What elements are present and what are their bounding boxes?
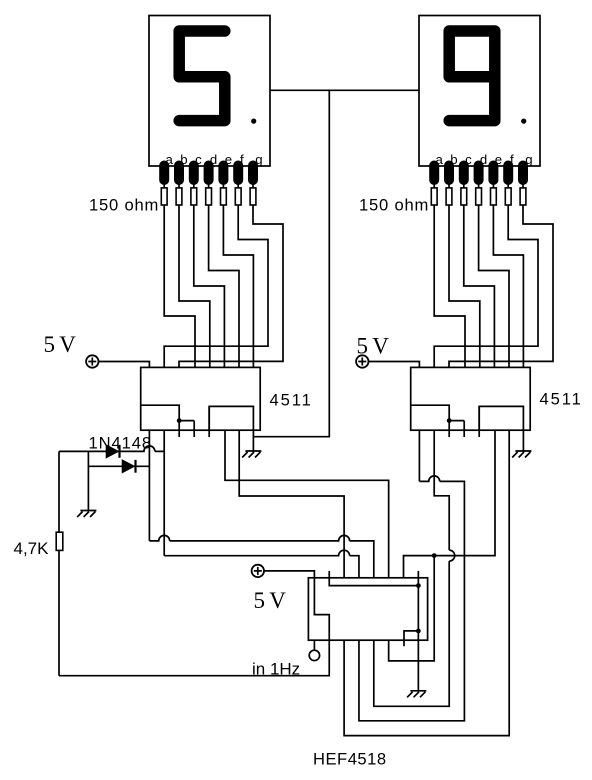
decimal point DS2 <box>521 119 526 124</box>
wire segment g DS2 to U2 <box>449 183 553 367</box>
wire U2 pinA outer loop <box>344 430 509 735</box>
svg-text:5V: 5V <box>357 334 394 359</box>
wire U1 pinA to U3 <box>239 430 344 578</box>
U3 inner divider <box>314 578 329 640</box>
U1 inner input box <box>209 406 253 430</box>
svg-text:4,7K: 4,7K <box>14 539 50 558</box>
ground U1 <box>242 451 261 458</box>
digit 5 on DS1 <box>179 31 225 121</box>
U2 inner input box <box>479 406 523 430</box>
U1 pin stub LT <box>178 421 180 437</box>
wire segment g DS1 to U1 <box>179 183 283 367</box>
diode D2 wire <box>88 465 149 467</box>
wire segment b DS1 to U1 <box>179 183 210 367</box>
junction dot U1 <box>177 418 182 423</box>
U2 pin stub LT <box>448 421 450 437</box>
U2 ground pin <box>522 430 524 451</box>
wire 5V to U2 <box>369 362 420 368</box>
junction dot right bus <box>432 553 437 558</box>
display DS2 <box>419 16 540 167</box>
segment labels a-g DS1 <box>166 152 263 167</box>
wire in 1Hz input <box>59 640 329 676</box>
junction dot U3 bottom <box>416 629 421 634</box>
U1 pin stub LE <box>208 406 210 437</box>
wire segment e DS2 to U2 <box>493 183 523 367</box>
wire U2 pin1 down-right (to U3 via right loop) <box>359 430 464 721</box>
wire U1 pin2 to U3 (reset row 2) <box>164 430 359 578</box>
svg-text:in 1Hz: in 1Hz <box>252 659 300 678</box>
wire segment d DS2 to U2 <box>479 183 509 367</box>
wire segment a DS2 to U2 <box>434 183 465 367</box>
pins DS1 <box>159 161 258 186</box>
svg-text:5V: 5V <box>254 588 291 613</box>
wire node branch to U3 lower <box>389 556 435 661</box>
diode D1 1N4148 <box>106 445 119 458</box>
diode D1 wire <box>59 446 164 451</box>
wire 5V to U3 <box>264 571 314 578</box>
wire segment d DS1 to U1 <box>209 183 239 367</box>
segment labels a-g DS2 <box>436 152 533 167</box>
wire 5V to U1 <box>99 362 150 368</box>
power 5V left circle-plus <box>86 355 98 367</box>
svg-text:1N4148: 1N4148 <box>89 433 153 452</box>
wire display common drop to ground node <box>253 90 329 436</box>
svg-text:150 ohm: 150 ohm <box>359 196 429 215</box>
wire segment a DS1 to U1 <box>164 183 195 367</box>
wire segment b DS2 to U2 <box>449 183 480 367</box>
wire diode ground rail <box>87 451 89 510</box>
U2 pin stub LE <box>478 406 480 437</box>
wire segment e DS1 to U1 <box>223 183 253 367</box>
svg-text:5V: 5V <box>44 332 81 357</box>
svg-text:150 ohm: 150 ohm <box>89 196 159 215</box>
wire rail 4K7 left <box>58 451 60 675</box>
decimal point DS1 <box>251 119 256 124</box>
U3 spine to ground <box>417 571 419 691</box>
ground U3 <box>407 691 426 698</box>
U1 ground pin <box>252 430 254 451</box>
power 5V right circle-plus <box>356 355 368 367</box>
diode D2 1N4148 <box>122 460 135 473</box>
U2 inner LT latch line <box>411 405 465 420</box>
wire display common link <box>270 89 419 91</box>
U1 pin stub BI <box>193 421 195 437</box>
U2 pin stub BI <box>463 421 465 437</box>
resistor R1 4,7K <box>56 532 63 550</box>
U1 inner LT latch line <box>141 405 195 420</box>
display DS1 <box>149 16 270 167</box>
U3 inner bottom stub <box>404 631 418 646</box>
wire U1 pinB to U3 <box>225 430 389 578</box>
U3 pin stub enable top <box>329 571 418 586</box>
resistor network 150 ohm DS1 <box>161 188 167 205</box>
junction dot U3 top <box>416 583 421 588</box>
ground U2 <box>512 451 531 458</box>
op chip U1 4511 left <box>141 367 261 430</box>
wire segment c DS2 to U2 <box>464 183 495 367</box>
pins DS2 <box>429 161 528 186</box>
counter chip U3 HEF4518 <box>308 578 427 640</box>
svg-text:4511: 4511 <box>270 391 313 410</box>
junction dot U2 <box>447 418 452 423</box>
svg-text:HEF4518: HEF4518 <box>313 749 387 768</box>
wire segment f DS2 to U2 <box>434 183 538 367</box>
wire U1 pin1 to U3 (reset row 1) <box>149 430 373 578</box>
clock bubble U3 <box>309 640 319 660</box>
wire segment f DS1 to U1 <box>164 183 268 367</box>
ground diodes <box>77 511 96 518</box>
power 5V U3 circle-plus <box>252 565 264 577</box>
wire segment c DS1 to U1 <box>194 183 225 367</box>
wire U2 pinB to U3 top <box>404 430 496 578</box>
svg-text:4511: 4511 <box>540 390 583 409</box>
wire U2 pin2 down-right loop <box>374 430 455 706</box>
resistor network 150 ohm DS2 <box>431 188 437 205</box>
op chip U2 4511 right <box>411 367 531 430</box>
digit 9 on DS2 <box>449 31 495 121</box>
